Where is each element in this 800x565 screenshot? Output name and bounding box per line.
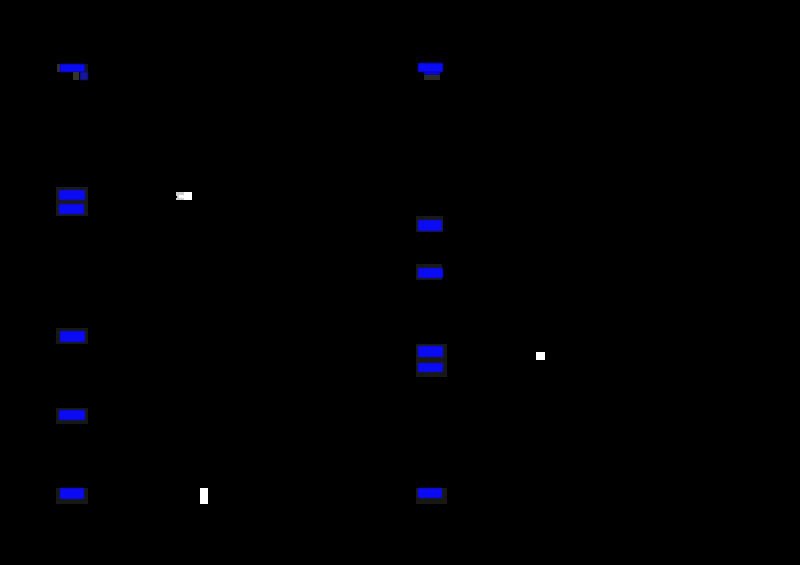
link blob E [60,488,84,499]
white square near I [536,352,545,361]
link blob A line1 left fringe [57,64,61,72]
white bar near E [200,488,208,504]
icon next to B: left gray half [176,192,184,200]
link blob G [418,220,443,231]
link blob B line1 [59,190,85,200]
link blob J [418,488,443,499]
link blob B box [56,187,89,216]
link blob A line2 gray part [73,72,80,80]
link blob C box [56,328,88,345]
link blob H [418,268,443,278]
link blob E box [56,488,88,504]
link blob J box [416,488,448,504]
link blob G box [416,216,444,232]
link blob A line1 [60,64,85,72]
link blob C [60,331,85,342]
link blob B line2 [59,204,84,214]
link blob H box [416,264,442,280]
icon next to B: inner white band [179,195,185,198]
link blob A line2 navy part [80,72,89,80]
link blob I line1 [418,346,443,357]
link blob F tail blue [424,72,440,75]
link blob F tail gray [424,75,440,80]
link blob D box [56,408,88,424]
icon next to B: left black notch [176,196,177,198]
link blob I line2 [418,363,443,372]
link blob F line1 [418,63,443,72]
link blob A line1 right dark text [85,64,89,72]
link blob I box [416,344,448,377]
icon next to B: right white half [184,192,192,200]
link blob D [59,410,84,421]
